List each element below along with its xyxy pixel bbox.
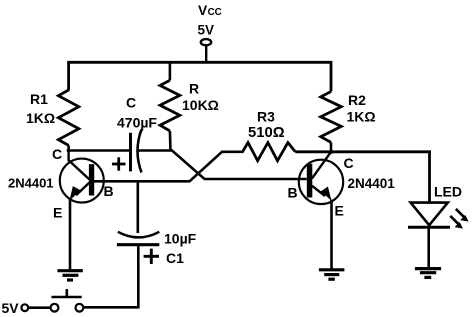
svg-text:LED: LED [434, 184, 462, 200]
svg-text:C: C [126, 95, 136, 111]
svg-text:C: C [344, 155, 354, 171]
svg-text:10µF: 10µF [164, 231, 197, 247]
svg-text:C1: C1 [166, 250, 184, 266]
svg-text:5V: 5V [2, 300, 20, 316]
LED diode symbol [408, 203, 450, 228]
wire 5V terminal to pushbutton [28, 306, 51, 309]
svg-text:10KΩ: 10KΩ [182, 97, 219, 113]
wire Q2 emitter to ground [330, 200, 333, 269]
transistor Q2 2N4401 [299, 152, 343, 204]
svg-text:B: B [104, 183, 114, 199]
svg-text:5V: 5V [198, 23, 215, 38]
resistor R1 [58, 90, 78, 145]
wire R3 to R2 bottom and LED branch [295, 150, 431, 153]
wire capacitor C to node N1 [138, 149, 174, 152]
wire R1 bottom to Q1 collector node [67, 145, 70, 151]
wire LED branch corner down to LED anode [428, 152, 431, 203]
svg-text:2N4401: 2N4401 [348, 176, 396, 191]
svg-text:1KΩ: 1KΩ [26, 110, 55, 126]
wire Q1 collector node horizontal to capacitor C [67, 149, 130, 152]
capacitor C1 positive plate [117, 243, 159, 246]
svg-text:C: C [52, 146, 62, 162]
wire Q1 emitter to ground [69, 199, 72, 270]
capacitor C curved negative plate [138, 130, 142, 173]
svg-text:R2: R2 [348, 92, 366, 108]
wire Q1 base diagonal to R3 (cross-coupling) [91, 152, 244, 182]
transistor Q1 2N4401 [60, 151, 104, 203]
svg-text:R3: R3 [257, 108, 275, 124]
label + (capacitor C1 polarity) [144, 249, 159, 264]
ground (Q2 emitter) [319, 270, 345, 279]
svg-text:E: E [53, 205, 62, 221]
svg-text:E: E [335, 203, 344, 219]
capacitor C1 curved negative plate [118, 232, 160, 238]
label + (capacitor C polarity) [112, 157, 126, 170]
wire node N1 diagonal to Q2 base (cross-coupling) [172, 151, 307, 180]
ground (Q1 emitter) [57, 271, 82, 280]
ground (LED) [415, 269, 441, 278]
capacitor C positive plate [129, 133, 132, 172]
resistor R3 [243, 143, 296, 161]
resistor R2 [321, 92, 342, 154]
svg-text:B: B [288, 185, 298, 201]
wire LED cathode to ground [427, 227, 430, 268]
pushbutton switch S1 [51, 289, 84, 312]
svg-text:R: R [189, 81, 199, 97]
terminal Vcc [201, 39, 211, 45]
resistor R (10K) [160, 62, 180, 151]
svg-text:CC: CC [208, 7, 222, 18]
svg-text:R1: R1 [30, 91, 48, 107]
wire Q1 base node down to capacitor C1 [137, 181, 140, 233]
wire capacitor C1 to pushbutton [84, 245, 139, 308]
LED light emission arrows [450, 209, 464, 225]
svg-text:510Ω: 510Ω [248, 125, 285, 141]
node Vcc label [198, 3, 222, 18]
svg-text:V: V [198, 3, 208, 18]
terminal 5V input [21, 304, 28, 311]
wire Vcc terminal to rail [205, 45, 207, 62]
wire top supply rail [69, 62, 331, 91]
svg-text:470µF: 470µF [117, 115, 157, 131]
svg-text:1KΩ: 1KΩ [347, 109, 376, 125]
svg-text:2N4401: 2N4401 [8, 175, 54, 190]
